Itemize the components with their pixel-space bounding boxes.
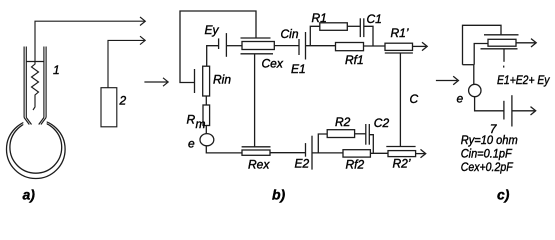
svg-text:R1: R1	[312, 11, 327, 25]
svg-text:e: e	[188, 137, 195, 151]
svg-text:Rf1: Rf1	[345, 53, 364, 67]
svg-text:Cin=0.1pF: Cin=0.1pF	[461, 146, 513, 160]
svg-text:2: 2	[119, 94, 127, 108]
svg-text:R1’: R1’	[391, 26, 409, 40]
svg-text:Rf2: Rf2	[346, 158, 365, 172]
svg-text:Cin: Cin	[281, 27, 299, 41]
svg-text:Ry=10 ohm: Ry=10 ohm	[461, 133, 518, 147]
svg-text:e: e	[457, 92, 464, 106]
svg-text:m: m	[196, 117, 206, 131]
svg-text:Cex+0.2pF: Cex+0.2pF	[461, 160, 514, 174]
svg-text:b): b)	[272, 187, 286, 203]
svg-text:C1: C1	[367, 12, 382, 26]
svg-text:E2: E2	[295, 157, 310, 171]
svg-text:1: 1	[53, 63, 60, 77]
svg-text:Ey: Ey	[205, 23, 220, 37]
svg-text:Rex: Rex	[248, 158, 270, 172]
svg-text:c): c)	[497, 187, 510, 203]
svg-text:R2’: R2’	[393, 157, 411, 171]
svg-text:E1: E1	[291, 62, 306, 76]
svg-text:R2: R2	[335, 115, 351, 129]
svg-text:C: C	[410, 92, 419, 106]
svg-text:E1+E2+ Ey: E1+E2+ Ey	[497, 73, 550, 87]
svg-text:R: R	[187, 113, 196, 127]
svg-text:Cex: Cex	[262, 57, 284, 71]
svg-text:C2: C2	[374, 116, 390, 130]
svg-text:a): a)	[23, 187, 36, 203]
svg-text:Rin: Rin	[213, 73, 231, 87]
